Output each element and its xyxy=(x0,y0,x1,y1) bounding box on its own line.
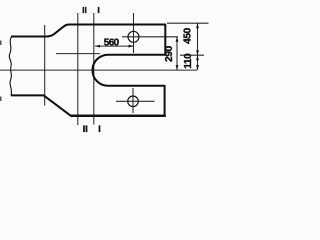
svg-text:560: 560 xyxy=(104,37,120,48)
svg-text:II: II xyxy=(82,5,87,15)
svg-text:I: I xyxy=(97,5,99,15)
svg-text:290: 290 xyxy=(164,45,175,62)
svg-text:110: 110 xyxy=(183,53,194,69)
svg-text:450: 450 xyxy=(182,27,193,44)
svg-text:II: II xyxy=(83,124,88,134)
svg-text:I: I xyxy=(98,124,101,134)
